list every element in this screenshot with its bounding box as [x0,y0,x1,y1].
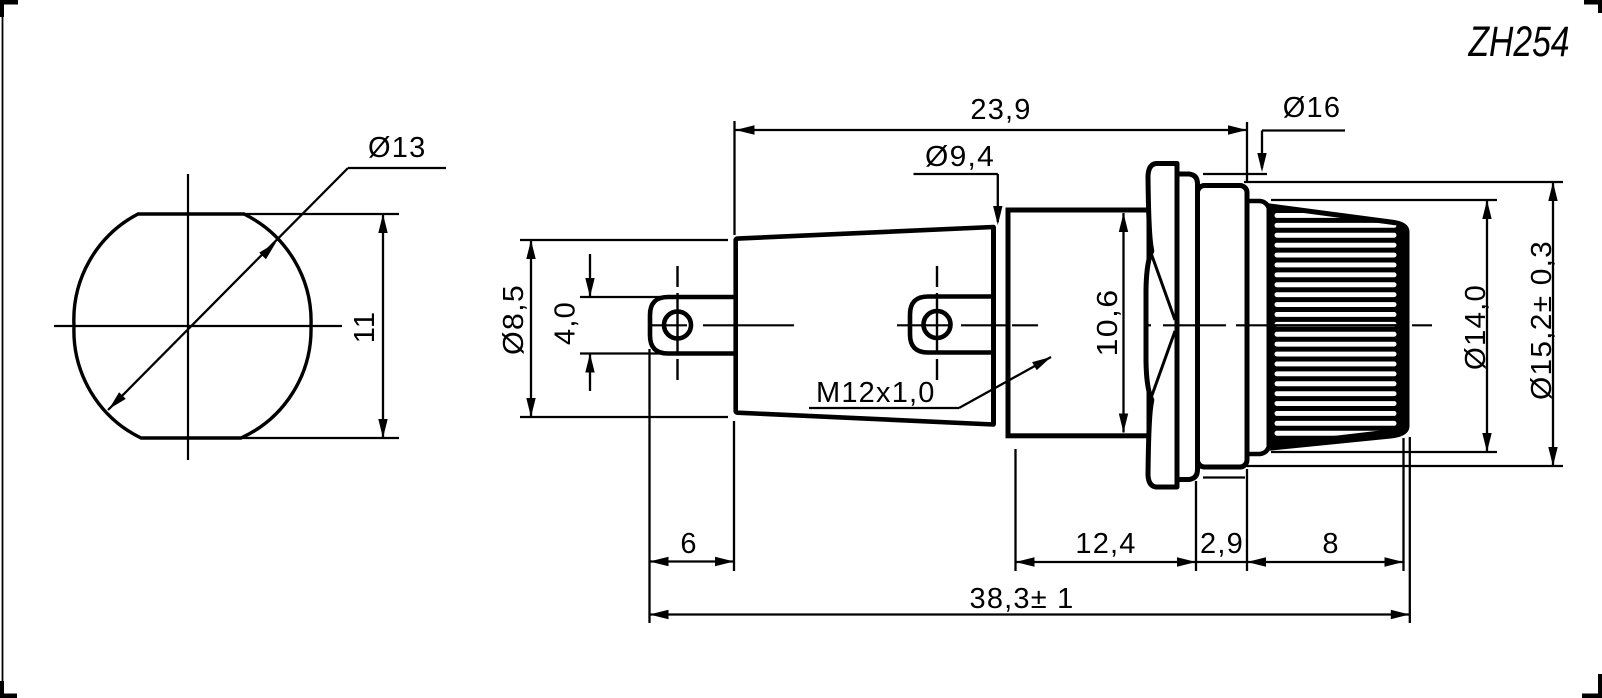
svg-text:11: 11 [349,311,381,344]
svg-text:6: 6 [680,528,697,560]
svg-text:Ø15,2± 0,3: Ø15,2± 0,3 [1526,240,1558,400]
svg-text:2,9: 2,9 [1200,528,1244,560]
svg-text:12,4: 12,4 [1075,528,1136,560]
svg-text:M12x1,0: M12x1,0 [816,377,936,409]
svg-text:23,9: 23,9 [970,94,1031,126]
svg-text:4,0: 4,0 [550,301,582,345]
svg-text:8: 8 [1322,528,1339,560]
svg-text:Ø13: Ø13 [368,132,426,164]
svg-text:Ø16: Ø16 [1283,92,1341,124]
svg-text:Ø8,5: Ø8,5 [498,284,530,355]
svg-text:10,6: 10,6 [1092,289,1124,357]
svg-text:Ø9,4: Ø9,4 [925,141,995,173]
svg-text:Ø14,0: Ø14,0 [1460,284,1492,370]
svg-text:38,3± 1: 38,3± 1 [970,583,1075,615]
svg-text:ZH254: ZH254 [1468,18,1570,66]
